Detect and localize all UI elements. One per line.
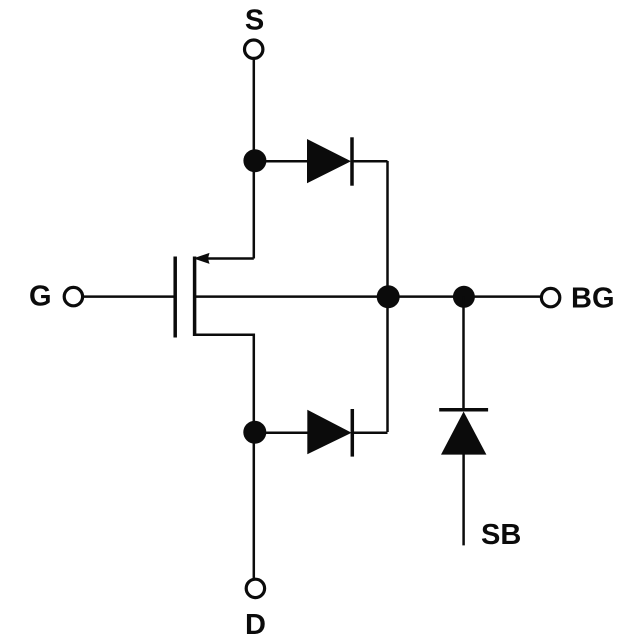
junction node A (body-diode rail) — [377, 285, 400, 308]
transistor Q1 arrowhead — [193, 253, 209, 264]
svg-text:D: D — [245, 609, 266, 640]
junction node B (substrate tap) — [453, 286, 475, 308]
terminal G — [64, 287, 82, 305]
diode D3 cathode bar — [439, 408, 488, 412]
wire bottom diode cathode to right rail — [352, 432, 388, 435]
transistor Q1 drain lead — [196, 335, 254, 432]
wire right vertical rail — [386, 161, 389, 432]
diode D2 (bottom) triangle — [307, 410, 351, 454]
wire diode D3 anode to SB — [462, 455, 465, 546]
wire top diode anode — [255, 160, 308, 163]
wire body rail (middle lead to BG) — [195, 295, 540, 298]
terminal BG — [541, 288, 559, 306]
diode D1 cathode bar — [350, 137, 354, 185]
svg-text:BG: BG — [571, 283, 615, 315]
wire gate lead — [84, 295, 175, 298]
diode D1 (top) triangle — [307, 139, 351, 183]
wire bottom diode anode — [255, 432, 309, 435]
wire top diode cathode to right rail — [351, 160, 388, 163]
wire S to top junction — [253, 59, 256, 259]
junction dot top (source node) — [243, 149, 266, 172]
diode D3 (substrate) triangle — [441, 412, 486, 455]
wire bottom junction to D — [253, 443, 256, 579]
diode D2 cathode bar — [351, 409, 355, 457]
junction dot bottom (drain node) — [243, 421, 266, 444]
transistor Q1 source lead with arrow — [207, 257, 254, 260]
svg-text:S: S — [245, 5, 264, 37]
terminal S — [245, 40, 263, 58]
svg-text:SB: SB — [481, 519, 521, 551]
wire node B down to diode D3 — [462, 297, 465, 411]
terminal D — [246, 579, 264, 597]
transistor Q1 gate bar — [173, 257, 177, 338]
transistor Q1 channel bar — [193, 257, 197, 337]
svg-text:G: G — [29, 281, 52, 313]
